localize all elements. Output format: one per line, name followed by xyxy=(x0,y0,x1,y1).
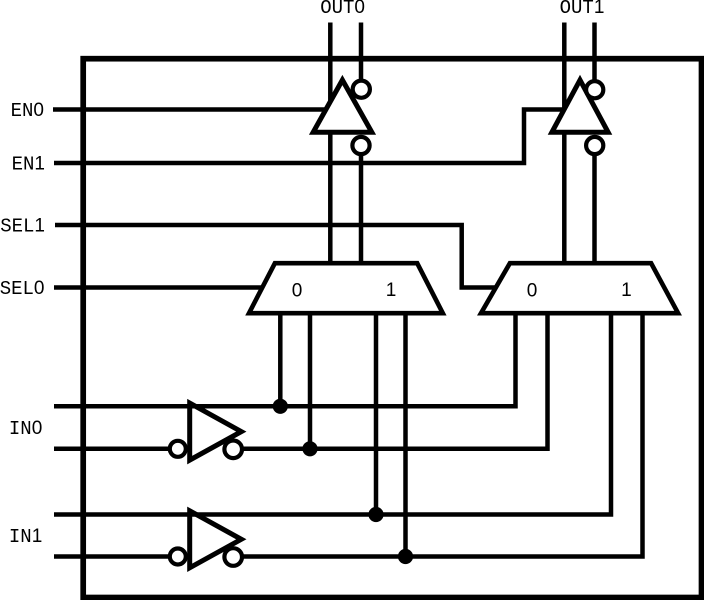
junction dot IN0 upper xyxy=(273,399,288,414)
input buffer IN1 xyxy=(190,511,242,568)
svg-text:EN1: EN1 xyxy=(12,153,45,175)
wire EN1 xyxy=(54,110,563,164)
bubble OUT0 buffer bottom xyxy=(352,137,369,154)
input buffer IN0 xyxy=(190,403,242,460)
svg-text:0: 0 xyxy=(527,281,538,302)
wire mux M1 input 1a xyxy=(374,311,379,515)
junction dot IN1 lower xyxy=(398,549,413,564)
wire OUT1 right upper segment xyxy=(592,23,597,82)
wire EN0 xyxy=(53,107,327,112)
svg-text:0: 0 xyxy=(292,281,303,302)
bubble IN0 buffer output xyxy=(224,441,242,459)
output buffer OUT0 xyxy=(313,80,372,132)
svg-text:SEL1: SEL1 xyxy=(0,215,45,237)
svg-text:SEL0: SEL0 xyxy=(0,278,45,300)
output buffer OUT1 xyxy=(552,80,608,132)
chip outline xyxy=(83,59,701,598)
mux M2 xyxy=(481,263,678,313)
wire OUT0 right upper segment xyxy=(359,23,364,82)
wire IN1 lower (buffer output to right mux) xyxy=(242,311,643,557)
wire SEL1 xyxy=(55,225,501,288)
wire IN0 lower (buffer output to right mux) xyxy=(242,311,548,449)
svg-text:EN0: EN0 xyxy=(11,100,44,122)
svg-text:1: 1 xyxy=(386,280,397,301)
wire OUT0 left (mux M1 to OUT0 pin) xyxy=(328,23,333,265)
svg-text:IN0: IN0 xyxy=(9,418,42,440)
bubble OUT1 buffer bottom xyxy=(586,137,603,154)
bubble IN0 buffer input xyxy=(170,441,186,457)
bubble OUT1 buffer top xyxy=(586,81,603,98)
svg-text:OUT1: OUT1 xyxy=(560,0,605,19)
wire IN0 upper (through buffer to right mux) xyxy=(54,311,516,406)
wire mux M1 input 1b xyxy=(403,311,408,557)
wire IN0 lower (input stub to bubble) xyxy=(54,447,170,452)
bubble IN1 buffer output xyxy=(224,548,242,566)
wire mux M1 input 0a xyxy=(278,311,283,406)
svg-text:IN1: IN1 xyxy=(9,526,42,548)
junction dot IN0 lower xyxy=(302,441,317,456)
wire mux M1 input 0b xyxy=(308,311,313,449)
wire IN1 lower (input stub to bubble) xyxy=(54,554,170,559)
svg-text:1: 1 xyxy=(621,280,632,301)
wire OUT0 right lower segment xyxy=(359,154,364,265)
bubble IN1 buffer input xyxy=(170,549,186,565)
wire OUT1 right lower segment xyxy=(592,154,597,265)
svg-text:OUT0: OUT0 xyxy=(320,0,365,19)
wire SEL0 xyxy=(54,285,263,290)
bubble OUT0 buffer top xyxy=(353,81,370,98)
mux M1 xyxy=(249,263,443,313)
wire IN1 upper (through buffer to right mux) xyxy=(54,311,611,515)
wire OUT1 left (mux M2 to OUT1 pin) xyxy=(562,23,567,265)
junction dot IN1 upper xyxy=(368,507,383,522)
